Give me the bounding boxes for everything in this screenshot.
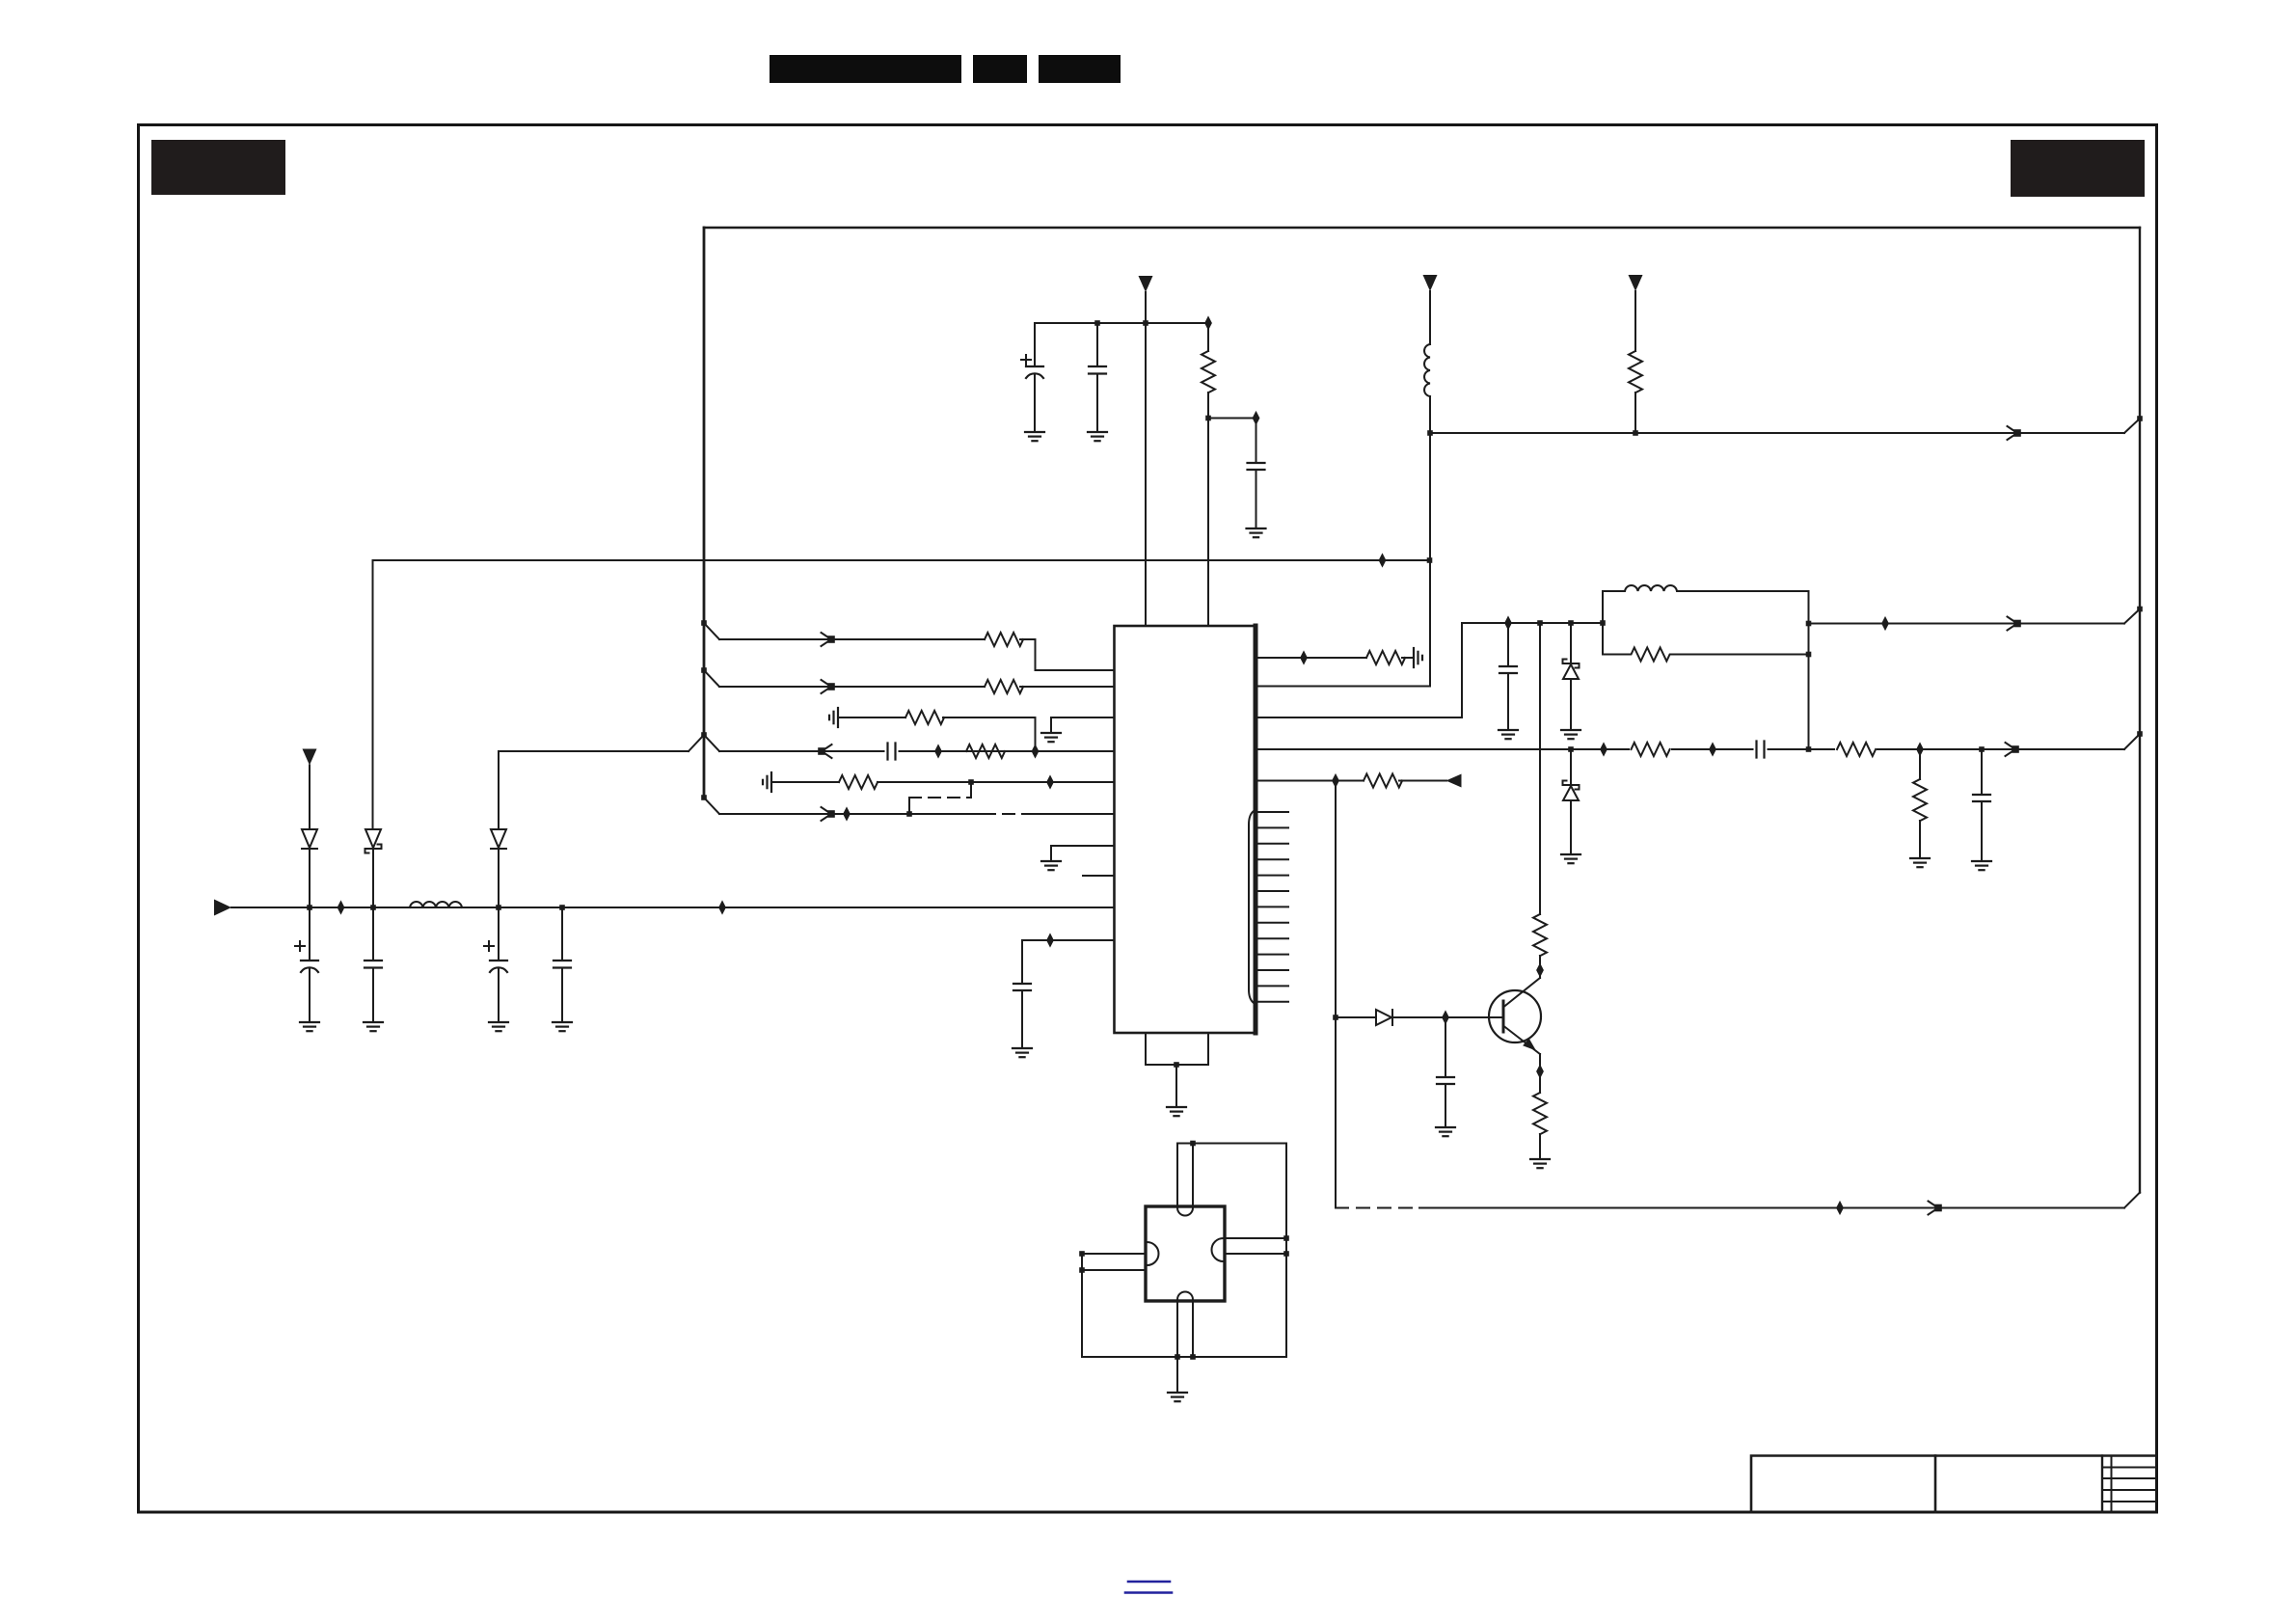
wire: C8 lower stem <box>1507 673 1509 730</box>
ground IC pin (877) <box>1041 861 1061 870</box>
node: bus at collector column <box>1537 620 1543 626</box>
capacitor C23 plates <box>1973 795 1990 801</box>
IC comb pin 13 <box>1256 1001 1288 1003</box>
redaction bar 1 (title) <box>770 55 961 83</box>
wire: R27 to collector <box>1539 956 1541 977</box>
wire: X1 right column <box>1285 1144 1287 1358</box>
wire: row6 to IC <box>1035 813 1115 815</box>
black label box top-left <box>151 140 285 195</box>
wire: IF output y=646.5 <box>1809 623 2125 625</box>
wire: row6 y=844 solid part <box>719 813 984 815</box>
junction diamond row4 a <box>934 744 942 758</box>
wire: row3 to corner down <box>943 717 1036 751</box>
node: net335 at C5 <box>1094 320 1100 326</box>
IC comb pin 6 <box>1256 890 1288 892</box>
wire: IC NC pin stub y=908 <box>1083 875 1115 877</box>
wire: ZD1 lower stem <box>1570 679 1572 730</box>
X1 notch left <box>1148 1242 1159 1265</box>
IC comb pin 10 <box>1256 954 1288 956</box>
transistor Q1 emitter arrow <box>1523 1039 1536 1051</box>
resistor R12 on row2 <box>985 680 1023 693</box>
ground C5 <box>1088 432 1107 441</box>
node: D1 on input line <box>307 905 312 910</box>
diode D4 (base) <box>1376 1010 1392 1025</box>
wire: D1 anode stem <box>309 766 311 830</box>
wire: X1 left pin b <box>1082 1269 1146 1271</box>
IC comb pin 7 <box>1256 906 1288 907</box>
wire: R24 lower stem <box>1919 821 1921 858</box>
wire: X1 left column <box>1081 1254 1083 1357</box>
wire: branch vertical x=1385 down <box>1335 781 1337 1208</box>
junction diamond bus at C8 <box>1504 615 1512 630</box>
wire: C4 lower stem <box>561 968 563 1023</box>
title block revision row 2 <box>2102 1477 2156 1479</box>
node: net777 zener tap <box>1568 746 1574 752</box>
resistor R14 on row4 <box>966 744 1005 758</box>
wire: zener D2 top riser from net581 <box>372 560 374 829</box>
wire: C2 stem <box>372 907 374 961</box>
power symbol (triangle) above D1 <box>303 749 317 766</box>
wire: D4 to base <box>1392 1016 1502 1018</box>
resistor R5 (vertical) <box>1202 351 1215 392</box>
wire: X1 top link <box>1177 1143 1286 1145</box>
wire: AFT row dashed part <box>1336 1207 1419 1209</box>
wire: R25 to arrow <box>1399 780 1446 782</box>
arrow on row2 <box>822 680 834 693</box>
node: net777 on frame edge <box>2137 731 2143 737</box>
wire: X1 right pin a <box>1225 1237 1286 1239</box>
title block revision column line <box>2111 1456 2113 1513</box>
power symbol +B rail 3 (triangle) <box>1629 275 1643 291</box>
zener ZD1 stem from bus646 <box>1570 623 1572 664</box>
junction diamond input line 2 <box>718 900 726 914</box>
node: X1 bottom pin b <box>1190 1354 1196 1360</box>
IC comb pin 2 <box>1256 826 1288 828</box>
ground C7 <box>1247 528 1266 537</box>
resistor R21 on pin682 <box>1366 651 1405 664</box>
node: D3 on input line <box>496 905 501 910</box>
wire: C7 lower stem <box>1256 470 1257 528</box>
junction diamond net777 a <box>1600 742 1607 756</box>
ground C23 <box>1972 861 1991 870</box>
junction diamond collector <box>1536 962 1544 977</box>
junction diamond input line 1 <box>338 900 345 914</box>
node: row5 dashed stub <box>968 779 974 785</box>
ground R24 <box>1910 858 1930 867</box>
node: trunk tap row2 <box>701 667 707 673</box>
node: IF output on frame edge <box>2137 607 2143 612</box>
wire: IC right pin y=777 long AGC net <box>1256 748 2124 750</box>
wire: dashed link stub down to row6 <box>908 798 910 814</box>
node: bus at ZD1 <box>1568 620 1574 626</box>
wire: C7 stem <box>1256 419 1257 464</box>
wire: collector diagonal to column <box>1539 977 1541 978</box>
ground (sideways) row3 left <box>829 708 838 727</box>
wire: IF output chamfer to frame edge <box>2124 609 2140 624</box>
wire: C15 lower stem <box>1021 990 1023 1048</box>
resistor R22 on net777 <box>1633 746 1668 752</box>
node: bus at LR box <box>1600 620 1606 626</box>
wire: tap jog row4 left <box>689 735 704 751</box>
node: R5/C7 junction <box>1205 416 1211 421</box>
ground C6 <box>1025 432 1044 441</box>
junction diamond net777 b <box>1709 742 1716 756</box>
wire: base row from branch to diode <box>1336 1016 1376 1018</box>
wire: C24 lower stem <box>1445 1084 1446 1127</box>
ground ZD1 <box>1561 730 1580 739</box>
zener ZD2 <box>1563 781 1580 801</box>
wire: C8 stem <box>1507 623 1509 666</box>
capacitor C3 (electrolytic) plus sign <box>484 941 494 951</box>
wire: bus y=646 <box>1462 622 1603 624</box>
wire: top decoupling net y=335 <box>1035 322 1208 324</box>
wire: net449 chamfer to frame edge <box>2124 419 2140 433</box>
wire: IC right pin y=711.5 to net581 <box>1256 560 1430 687</box>
node: D2 on input line <box>370 905 376 910</box>
node: net777 at LR column <box>1806 746 1812 752</box>
IC U1 (tuner/IF IC) body <box>1115 626 1256 1033</box>
arrow on AFT row <box>1929 1202 1941 1215</box>
wire: row3 from ground to resistor <box>838 717 905 718</box>
wire: tap jog row2 <box>704 670 719 687</box>
wire: ZD2 lower stem <box>1570 800 1572 854</box>
wire: C6 lower stem <box>1034 375 1036 432</box>
wire: C3 lower stem <box>498 969 500 1022</box>
node: net335 at rail1 <box>1143 320 1148 326</box>
hyperlink underline 2 (blue) <box>1125 1591 1172 1594</box>
capacitor C1 (electrolytic) plus sign <box>295 941 305 951</box>
wire: IC bottom stub right <box>1207 1033 1209 1065</box>
IC comb pin 9 <box>1256 937 1288 939</box>
wire: X1 bottom pin a <box>1176 1301 1178 1357</box>
wire: horizontal net y=581 <box>373 559 1430 561</box>
node: trunk tap row6 <box>701 795 707 800</box>
junction diamond row4 b <box>1032 744 1040 758</box>
ground C4 <box>553 1022 572 1031</box>
node: net449 on frame edge <box>2137 416 2143 421</box>
wire: X1 left pin a <box>1082 1253 1146 1255</box>
arrow: net449 off-page <box>2008 426 2020 440</box>
wire: C1 stem <box>309 907 311 961</box>
wire: row5 ground to resistor <box>771 781 839 783</box>
X1 notch right <box>1212 1238 1224 1261</box>
wire: IC ground pin y=877 <box>1051 846 1115 861</box>
ground (sideways right) pin682 <box>1414 648 1422 667</box>
LR tank: right column <box>1808 591 1810 749</box>
IC comb pin 1 <box>1256 811 1288 813</box>
capacitor C15 plates <box>1013 984 1031 990</box>
node: trunk tap row4 <box>701 732 707 738</box>
zener ZD2 stem from net777 <box>1570 749 1572 786</box>
node: dashed link on row6 <box>906 811 912 817</box>
junction diamond base <box>1442 1010 1449 1024</box>
inductor L1 on input line <box>410 902 462 907</box>
resistor R24 (vertical) to ground <box>1913 779 1927 821</box>
capacitor C14 (series) on row4 <box>888 748 896 754</box>
wire: C3 stem <box>498 907 500 961</box>
node: net581 to +B vertical <box>1427 557 1433 563</box>
capacitor C6 plates <box>1026 366 1043 378</box>
node: rail2 at net449 <box>1427 430 1433 436</box>
diode D3 <box>491 829 506 849</box>
wire: IC pin3 ground link <box>1051 717 1115 733</box>
X1 notch top <box>1177 1208 1193 1216</box>
transistor Q1 body circle <box>1489 990 1541 1042</box>
node: LR right at 678 <box>1806 652 1812 658</box>
capacitor C7 plates <box>1248 463 1265 470</box>
arrow (left) on row4 <box>819 744 831 758</box>
capacitor C1 plates <box>301 961 318 972</box>
wire: rail3 stem upper <box>1634 291 1636 351</box>
wire: IC ground stem <box>1175 1065 1177 1107</box>
wire: R5 lower stem to IC <box>1207 392 1209 626</box>
junction diamond row5 <box>1046 774 1054 789</box>
wire: AFT row solid part <box>1419 1207 2124 1209</box>
wire: row1 to corner <box>1020 639 1115 670</box>
resistor R15 on row5 <box>839 775 878 789</box>
wire: X1 top pin b <box>1192 1144 1194 1207</box>
capacitor C5 plates <box>1089 366 1106 374</box>
zener D2 <box>365 829 382 853</box>
wire: horizontal net y=449 <box>1430 432 2124 434</box>
node: LR right at 646 <box>1806 621 1812 627</box>
title block divider 2 <box>2101 1456 2103 1513</box>
resistor R13 on row3 <box>905 711 944 724</box>
wire: C6 stem <box>1034 323 1036 366</box>
X1 notch bottom <box>1177 1292 1193 1300</box>
wire: row2 to IC <box>1020 686 1115 688</box>
wire: R28 lower stem <box>1539 1134 1541 1159</box>
wire: main input line y=941 <box>231 907 1115 908</box>
wire: X1 ground stem <box>1176 1357 1178 1393</box>
wire: +B rail2 stem lower <box>1429 396 1431 687</box>
junction diamond AFT row <box>1836 1201 1844 1215</box>
redaction bar 2 <box>973 55 1027 83</box>
wire: R21 to ground <box>1402 657 1414 659</box>
wire: row5 to IC <box>878 781 1115 783</box>
inductor L (vertical) on +B rail2 <box>1424 344 1430 396</box>
wire: IC bottom stub left <box>1145 1033 1147 1065</box>
arrow on IF output <box>2008 617 2020 631</box>
IC U1 right edge (thick) <box>1254 626 1258 1033</box>
wire: row4 trunk to IC <box>719 750 1115 752</box>
power symbol +B rail1 (triangle) <box>1139 276 1153 292</box>
page border frame <box>139 125 2157 1513</box>
ground C15 <box>1013 1048 1032 1057</box>
node: IC bottom center <box>1174 1062 1179 1068</box>
wire: X1 top pin a <box>1176 1144 1178 1207</box>
title block revision row 1 <box>2102 1467 2156 1469</box>
wire: row4 y=779 from D3 to trunk <box>499 750 689 752</box>
transistor Q1 collector lead <box>1504 978 1541 1007</box>
wire: C2 lower stem <box>372 968 374 1023</box>
input arrow (RF in, filled triangle) <box>214 900 231 916</box>
ground IC pin3 <box>1041 733 1061 742</box>
node: rail3 at net449 <box>1633 430 1638 436</box>
node: X1 right pin b <box>1283 1251 1289 1257</box>
wire: R24 stem from net777 <box>1919 749 1921 779</box>
wire: link to C7 <box>1208 418 1256 420</box>
wire: left trunk bus <box>703 228 706 798</box>
wire: row1 y=663 left <box>719 638 985 640</box>
wire: net777 chamfer to frame edge <box>2124 734 2140 749</box>
wire: +B rail2 stem upper <box>1429 291 1431 344</box>
resistor R28 (vertical) emitter <box>1533 1093 1547 1134</box>
node: branch at transistor base row <box>1333 1015 1338 1020</box>
ground ZD2 <box>1561 854 1580 863</box>
wire: +B rail1 stem <box>1145 292 1147 626</box>
capacitor C8 plates <box>1499 666 1517 673</box>
wire: C5 stem <box>1096 323 1098 366</box>
title block divider 1 <box>1934 1456 1937 1513</box>
wire: X1 bottom pin b <box>1192 1301 1194 1357</box>
redaction bar 3 <box>1039 55 1121 83</box>
capacitor C4 plates <box>554 961 571 968</box>
wire: D2 cathode stem <box>372 849 374 907</box>
ground IC bottom <box>1167 1107 1186 1116</box>
title block outline <box>1751 1456 2156 1513</box>
hyperlink underline 1 (blue) <box>1128 1581 1170 1583</box>
wire: IC decoupling row y=975 <box>1022 940 1115 984</box>
node: C4 on input line <box>559 905 565 910</box>
junction diamond net777 c <box>1916 742 1924 756</box>
ground X1 <box>1168 1393 1187 1401</box>
resistor R11 on row1 <box>985 633 1023 646</box>
ground (sideways) row5 left <box>763 772 771 792</box>
wire: inner frame right edge <box>2139 228 2141 1193</box>
IC comb pin 5 <box>1256 875 1288 877</box>
junction diamond pin809 <box>1332 773 1339 788</box>
title block revision row 3 <box>2102 1489 2156 1491</box>
wire: row2 y=712 <box>719 686 985 688</box>
wire: IC right pin y=809.5 <box>1256 780 1364 782</box>
wire: C24 stem from base <box>1445 1017 1446 1077</box>
title block revision row 4 <box>2102 1501 2156 1502</box>
node: X1 bottom pin a <box>1175 1354 1180 1360</box>
arrow on row6 <box>822 807 834 821</box>
wire: tap jog row4 right <box>704 735 719 751</box>
black label box top-right <box>2011 140 2145 197</box>
wire: C5 lower stem <box>1096 374 1098 433</box>
page arrow (filled, left) end of pin809 <box>1446 774 1462 788</box>
capacitor C6 (electrolytic) plus sign <box>1021 355 1031 365</box>
wire: X1 bottom link <box>1082 1356 1286 1358</box>
wire: X1 right pin b <box>1225 1253 1286 1255</box>
node: X1 right pin a <box>1283 1235 1289 1241</box>
ground R28 <box>1530 1159 1550 1168</box>
wire: dashed link stub down from row5 <box>970 782 972 798</box>
wire: emitter column <box>1539 1054 1541 1093</box>
wire: D1 cathode stem <box>309 849 311 907</box>
node: X1 left pin a <box>1079 1251 1085 1257</box>
node: trunk tap row1 <box>701 620 707 626</box>
capacitor C3 plates <box>490 961 507 972</box>
IC comb pin 8 <box>1256 922 1288 924</box>
resistor R (vertical) on rail3 <box>1629 351 1642 392</box>
junction diamond net335 right <box>1204 315 1212 330</box>
IC comb pin 3 <box>1256 843 1288 845</box>
capacitor C24 plates <box>1437 1077 1454 1084</box>
junction diamond row 975 <box>1046 933 1054 947</box>
LR tank: bottom edge with resistor R26 <box>1603 648 1809 662</box>
junction diamond emitter <box>1536 1064 1544 1078</box>
wire: inner frame top edge <box>704 227 2140 229</box>
arrow on row1 <box>822 633 834 646</box>
transistor Q1 emitter lead <box>1504 1026 1541 1054</box>
resistor R23 on net777 <box>1838 746 1874 752</box>
wire: R5 upper stem <box>1207 323 1209 351</box>
node: X1 top link <box>1190 1141 1196 1147</box>
junction diamond IF output <box>1881 616 1889 631</box>
wire: frame bottom chamfer to signal row <box>2124 1193 2140 1208</box>
wire: dashed link horizontal <box>909 797 971 798</box>
transistor Q1 base bar <box>1502 1001 1505 1032</box>
LR tank: top edge with inductor L2 <box>1603 585 1809 591</box>
node: X1 left pin b <box>1079 1267 1085 1273</box>
wire: row6 dashed part <box>984 813 1035 815</box>
node: net777 at C23 <box>1979 746 1985 752</box>
wire: C23 stem <box>1981 749 1983 795</box>
wire: C1 lower stem <box>309 969 311 1022</box>
wire: rail3 stem lower <box>1634 392 1636 433</box>
crystal/filter X1 body <box>1146 1206 1225 1301</box>
capacitor C22 (series) on net777 <box>1757 746 1765 752</box>
junction diamond C7 top <box>1253 411 1260 425</box>
capacitor C2 plates <box>365 961 382 968</box>
wire: tap jog row6 <box>704 798 719 814</box>
power symbol +B rail 2 (triangle) <box>1423 275 1438 291</box>
ground C3 <box>489 1022 508 1031</box>
resistor R27 (vertical) collector load <box>1533 914 1547 956</box>
wire: C23 lower stem <box>1981 801 1983 861</box>
IC comb pin 12 <box>1256 985 1288 987</box>
wire: D3 riser to net778 <box>498 751 500 829</box>
IC comb pin 11 <box>1256 969 1288 971</box>
LR tank: left edge <box>1602 591 1604 655</box>
wire: collector column x=1597 <box>1539 623 1541 914</box>
ground C2 <box>364 1022 383 1031</box>
ground C1 <box>300 1022 319 1031</box>
IC comb pin 4 <box>1256 858 1288 860</box>
ground C24 <box>1436 1127 1455 1136</box>
junction diamond row6 <box>843 806 851 821</box>
wire: D3 cathode stem <box>498 849 500 907</box>
diode D1 <box>302 829 317 849</box>
junction diamond pin682 <box>1300 650 1308 664</box>
resistor R25 on pin809 <box>1364 774 1402 788</box>
wire: IC right pin y=744 to bus646 <box>1256 623 1462 717</box>
wire: IC bottom join <box>1146 1064 1208 1066</box>
IC connector bracket <box>1249 811 1254 1003</box>
zener ZD1 <box>1563 660 1580 680</box>
wire: tap jog row1 <box>704 623 719 639</box>
wire: C4 stem <box>561 907 563 961</box>
wire: IC right pin y=682 <box>1256 657 1366 659</box>
junction diamond on net 581 <box>1379 553 1387 567</box>
arrow on net777 <box>2006 743 2018 756</box>
ground C8 <box>1499 730 1518 739</box>
